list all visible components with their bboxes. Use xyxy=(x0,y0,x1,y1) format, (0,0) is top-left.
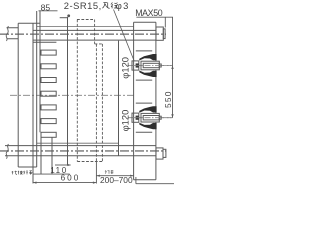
top shaft end stub xyxy=(163,29,165,39)
rack rail pair xyxy=(37,11,40,167)
dim 200-700 line xyxy=(96,175,133,177)
top shaft xyxy=(7,28,156,40)
chuck lower jaw cy=119.4 xyxy=(139,123,156,129)
glyph 径 xyxy=(111,2,118,8)
leader line to top chuck xyxy=(114,10,135,61)
chuck cylinder sleeve cy=66.5 xyxy=(143,63,159,67)
dim 600 ext lines xyxy=(33,162,96,184)
chuck bracket cy=66.5 xyxy=(132,61,139,70)
chuck cylinder sleeve cy=119.4 xyxy=(143,116,159,120)
svg-text:MAX50: MAX50 xyxy=(135,8,163,18)
bottom support block xyxy=(41,137,52,174)
hidden dashed bottom edge xyxy=(77,161,102,163)
rack tooth 1 xyxy=(41,50,56,55)
chuck stub cy=66.5 xyxy=(159,64,161,67)
dim 550 arrows xyxy=(171,66,173,118)
bottom shaft end cap xyxy=(156,148,163,159)
dim MAX50 ext lines xyxy=(164,17,166,27)
rack tooth 6 xyxy=(41,119,56,124)
dim 600 line xyxy=(33,182,96,184)
table corner bottom right xyxy=(136,177,174,184)
bottom shaft centerline xyxy=(0,150,166,152)
leader dot xyxy=(67,14,70,17)
dim 110 line xyxy=(55,164,71,166)
dim 600 arrows xyxy=(33,182,96,184)
rack tooth 3 xyxy=(41,78,56,83)
dim MAX50 line xyxy=(136,16,173,18)
middle column line xyxy=(67,17,69,165)
rack tooth 5 xyxy=(41,105,56,110)
left column xyxy=(18,23,40,183)
top shaft centerline xyxy=(0,33,166,35)
tube upper line top xyxy=(37,25,134,27)
svg-text:φ3: φ3 xyxy=(116,0,130,11)
chuck cylinder cy=66.5 xyxy=(141,61,159,70)
bottom shaft end stub xyxy=(163,149,166,157)
frame edge line xyxy=(118,41,120,156)
chuck stub cy=119.4 xyxy=(159,116,161,119)
machine wall xyxy=(134,22,156,179)
leader elbow to middle column xyxy=(60,17,68,19)
rack tooth 4 xyxy=(41,91,56,96)
chuck centerline cy=119.4 xyxy=(128,117,173,119)
tube upper line bottom xyxy=(37,142,119,144)
hidden dashed step xyxy=(95,43,102,45)
svg-text:200–700: 200–700 xyxy=(100,175,133,185)
glyph 孔 xyxy=(102,2,109,8)
chuck bracket cy=119.4 xyxy=(132,113,139,122)
chuck lower jaw cy=66.5 xyxy=(139,71,156,78)
glyphs 托板行程 tiny xyxy=(12,171,33,175)
chuck centerline overlay cy=66.5 xyxy=(134,65,173,67)
top shaft end cap xyxy=(156,27,163,40)
top shaft break xyxy=(6,26,8,41)
chuck cylinder cy=119.4 xyxy=(141,113,159,122)
mid horizontal centerline xyxy=(10,94,134,96)
rack plate top edge xyxy=(33,41,56,43)
svg-text:φ120: φ120 xyxy=(120,110,131,132)
chuck upper jaw cy=66.5 xyxy=(139,54,156,61)
hidden dashed pair xyxy=(96,44,102,162)
chuck upper jaw cy=119.4 xyxy=(139,106,156,113)
chuck centerline cy=66.5 xyxy=(128,65,173,67)
bottom shaft break xyxy=(6,144,8,159)
bottom shaft xyxy=(5,146,156,156)
chuck body edges cy=119.4 xyxy=(136,103,152,132)
dim 85 line xyxy=(39,10,58,12)
rack tooth 2 xyxy=(41,64,56,69)
svg-text:2-SR15,: 2-SR15, xyxy=(64,0,102,11)
SR15 ball cy=66.5 xyxy=(136,63,139,67)
chuck body edges cy=66.5 xyxy=(136,51,152,80)
dim 550 line xyxy=(172,17,174,118)
SR15 ball cy=119.4 xyxy=(136,116,139,120)
hidden dashed outline left xyxy=(77,20,95,162)
dim 200-700 arrows xyxy=(96,175,133,177)
chuck centerline overlay cy=119.4 xyxy=(134,117,173,119)
svg-text:600: 600 xyxy=(61,174,81,183)
dim 110 arrow xyxy=(67,164,71,166)
svg-text:85: 85 xyxy=(41,2,51,12)
rack tooth 7 xyxy=(41,132,56,137)
bottom edge line under 110 xyxy=(33,173,70,175)
svg-text:φ120: φ120 xyxy=(120,57,131,79)
glyphs 行程 tiny xyxy=(105,170,114,174)
svg-text:550: 550 xyxy=(163,90,173,108)
